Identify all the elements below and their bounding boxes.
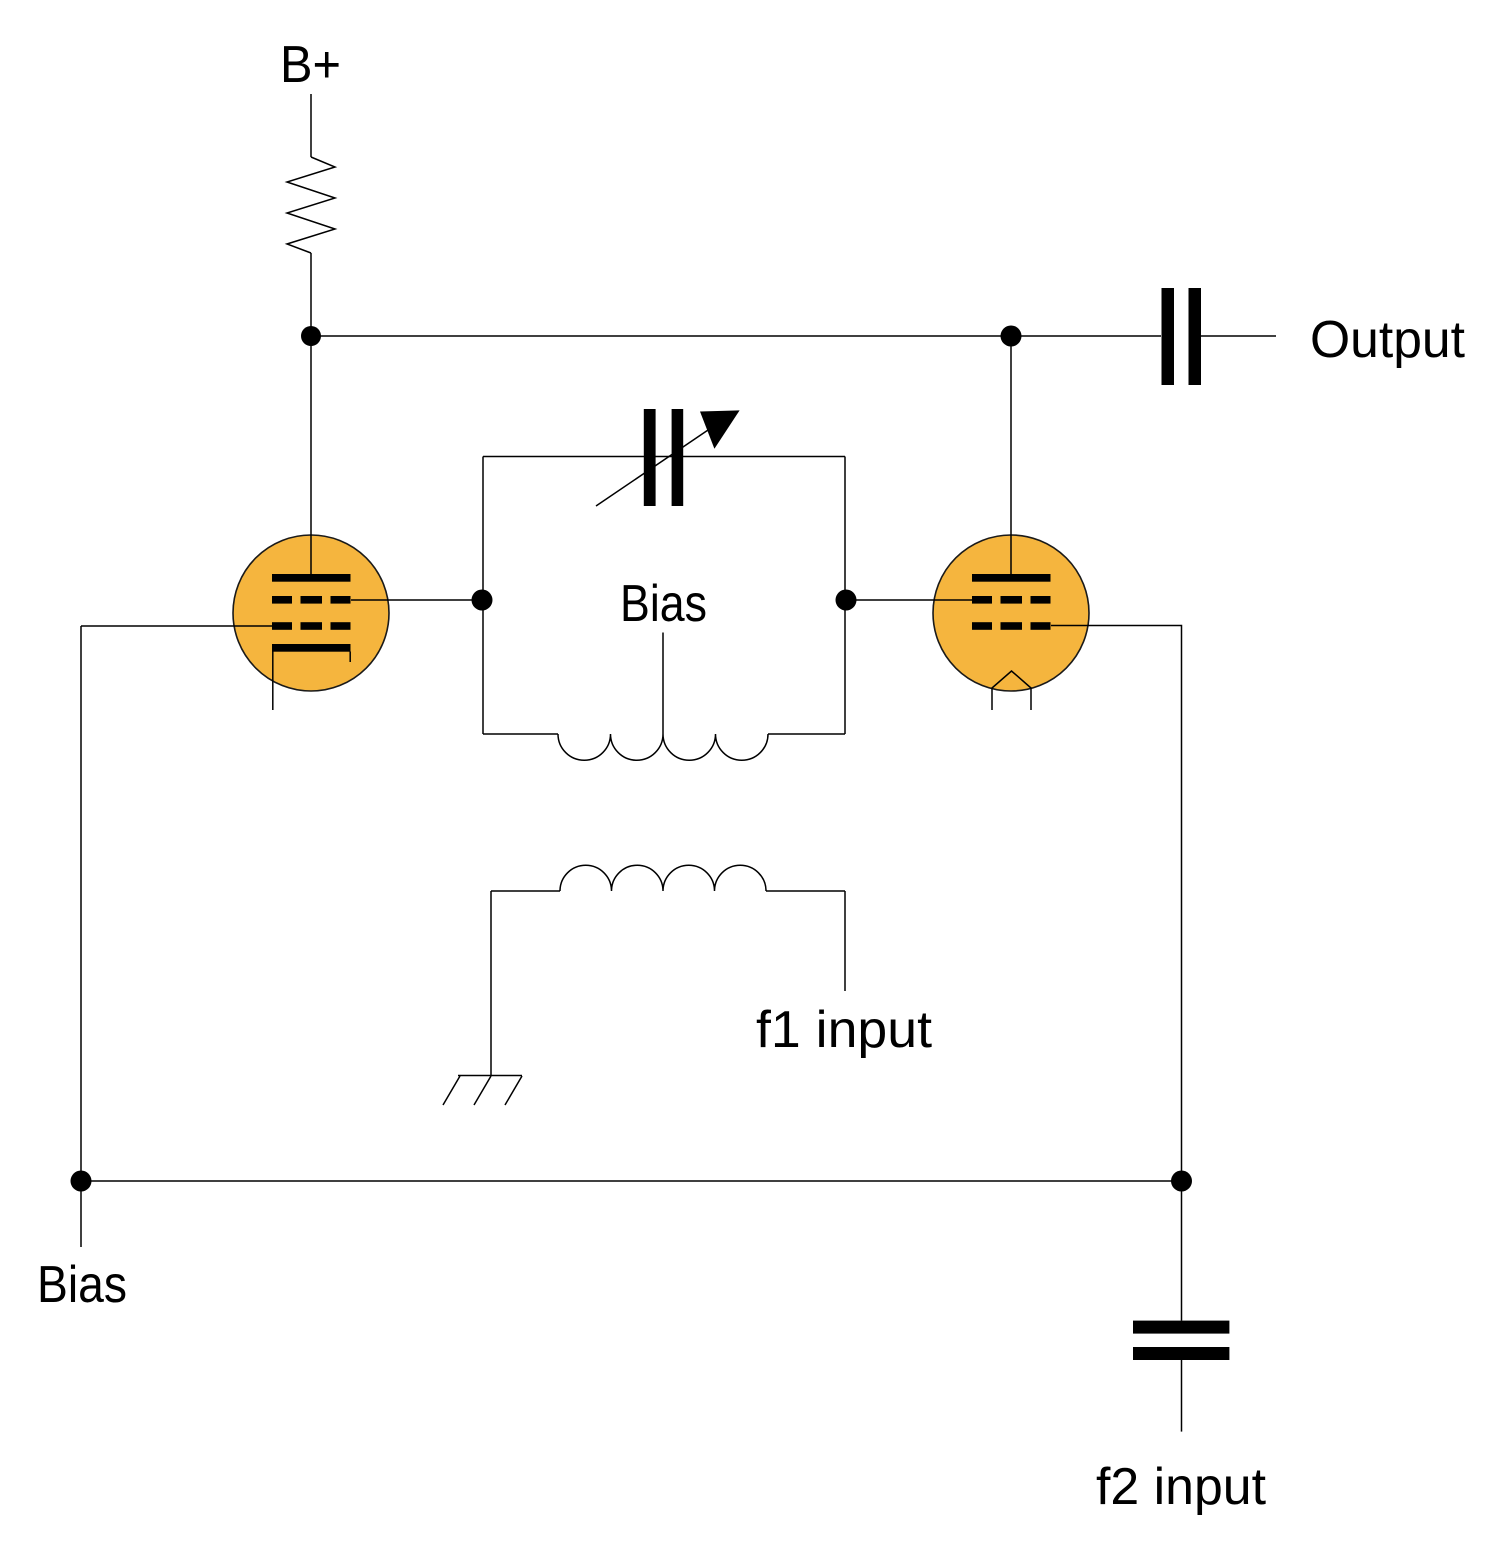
wire f2 lead down bbox=[1181, 1181, 1183, 1321]
wire output lead bbox=[1201, 335, 1276, 337]
wire tank box right edge bbox=[844, 457, 846, 735]
wire top bus horizontal bbox=[311, 335, 1011, 337]
svg-text:B+: B+ bbox=[280, 36, 341, 94]
node junction dot bottom right bbox=[1171, 1171, 1192, 1192]
tube V2 grid row 2 bbox=[972, 622, 1051, 630]
wire V1 grid1 to tank left bbox=[351, 599, 483, 601]
svg-text:f2 input: f2 input bbox=[1096, 1458, 1267, 1516]
ground bbox=[443, 1076, 522, 1106]
capacitor C-output bbox=[1162, 288, 1202, 385]
tube V2 envelope bbox=[933, 535, 1089, 691]
wire f2 lead below bbox=[1181, 1360, 1183, 1432]
wire bottom bus bbox=[81, 1180, 1182, 1182]
wire tank box top edge bbox=[483, 456, 845, 458]
tube V1 grid row 1 bbox=[272, 596, 351, 604]
wire bias stub down bbox=[80, 1181, 82, 1247]
svg-text:Bias: Bias bbox=[37, 1256, 127, 1314]
svg-text:Bias: Bias bbox=[620, 575, 707, 633]
tube V1 plate bbox=[272, 574, 351, 582]
wire tank box left edge bbox=[482, 457, 484, 735]
node junction dot left top bbox=[301, 326, 321, 346]
wire resistor to top bus bbox=[310, 253, 312, 336]
inductor L1 tank coil bbox=[558, 734, 768, 760]
wire right plate lead bbox=[1010, 336, 1012, 574]
capacitor C-f2 bbox=[1133, 1321, 1229, 1360]
wire left bias rail vertical bbox=[80, 626, 82, 1181]
tube V2 filament bbox=[992, 671, 1031, 710]
wire tank box bottom right segment bbox=[768, 733, 845, 735]
node junction dot tank left bbox=[472, 590, 493, 611]
wire tank right to V2 grid1 bbox=[846, 599, 972, 601]
wire f1 lead down bbox=[844, 891, 846, 991]
wire to output capacitor bbox=[1011, 335, 1161, 337]
tube V1 envelope bbox=[233, 535, 389, 691]
wire left plate lead bbox=[310, 336, 312, 574]
tube V1 cathode left leg bbox=[272, 652, 274, 711]
wire L2 left leg down to ground bbox=[490, 891, 492, 1076]
svg-text:f1 input: f1 input bbox=[756, 1001, 933, 1059]
inductor L2 input coil bbox=[491, 865, 845, 891]
tube V1 grid row 2 bbox=[272, 622, 351, 630]
resistor R1 bbox=[287, 157, 335, 253]
tube V2 plate bbox=[972, 574, 1051, 582]
wire bias center tap bbox=[662, 633, 664, 735]
wire V2 grid2 to right rail bbox=[1051, 626, 1182, 1182]
wire V1 grid2 to left bias rail bbox=[81, 625, 272, 627]
wire tank box bottom left segment bbox=[483, 733, 558, 735]
variable capacitor C-tune bbox=[596, 409, 740, 506]
tube V1 cathode right leg bbox=[349, 652, 351, 663]
tube V1 cathode bbox=[272, 644, 351, 652]
node junction dot right top bbox=[1001, 326, 1022, 347]
node junction dot tank right bbox=[836, 590, 857, 611]
wire B+ lead down to resistor bbox=[310, 94, 312, 157]
tube V2 grid row 1 bbox=[972, 596, 1051, 604]
svg-text:Output: Output bbox=[1310, 311, 1466, 369]
node junction dot bottom left bbox=[71, 1171, 92, 1192]
